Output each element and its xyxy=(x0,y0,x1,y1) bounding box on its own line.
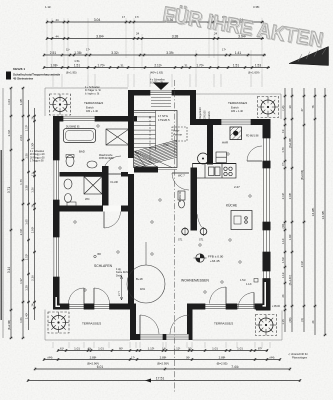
svg-text:2.62¹: 2.62¹ xyxy=(300,261,304,267)
svg-text:2.26: 2.26 xyxy=(30,275,34,281)
svg-text:2.63¹: 2.63¹ xyxy=(7,130,11,137)
svg-text:1.13¹: 1.13¹ xyxy=(148,346,155,350)
svg-text:30: 30 xyxy=(288,105,292,108)
svg-text:1.29: 1.29 xyxy=(24,285,28,291)
wall stair bottom stub xyxy=(134,167,158,173)
svg-text:KÜCHE: KÜCHE xyxy=(226,204,237,208)
wall bedroom top xyxy=(53,206,134,212)
wire dimension line x=28.5 xyxy=(28,100,30,330)
door arc entrance xyxy=(247,146,262,161)
svg-text:D30: D30 xyxy=(163,143,169,147)
door arc wc7 xyxy=(172,173,189,190)
svg-text:4 x Schwellen: 4 x Schwellen xyxy=(30,151,45,153)
svg-text:2.27: 2.27 xyxy=(234,185,240,189)
svg-text:40¹: 40¹ xyxy=(88,346,92,350)
svg-text:1.97: 1.97 xyxy=(19,278,23,284)
svg-text:B+18: B+18 xyxy=(136,277,143,281)
svg-text:(+4): (+4) xyxy=(281,105,285,110)
wall corridor-kitchen xyxy=(191,168,198,231)
svg-text:13.98¹: 13.98¹ xyxy=(311,208,315,217)
svg-text:3.71: 3.71 xyxy=(7,187,11,193)
wall left outer xyxy=(53,116,60,310)
svg-text:44: 44 xyxy=(55,34,59,38)
svg-text:60/126 1: 60/126 1 xyxy=(13,67,25,71)
svg-text:FD 86/1.98: FD 86/1.98 xyxy=(246,135,259,138)
wire dimension line y=67.5 xyxy=(44,67,270,69)
extension lines xyxy=(53,74,270,348)
svg-text:(B+1.88): (B+1.88) xyxy=(289,138,292,148)
svg-text:1.52¹: 1.52¹ xyxy=(24,254,28,260)
terrace top-left boundary xyxy=(45,88,128,116)
svg-text:ST1: ST1 xyxy=(199,239,204,242)
svg-text:28 Fliegg u 50: 28 Fliegg u 50 xyxy=(30,157,45,159)
wire dimension line y=369 xyxy=(35,368,290,370)
svg-text:SCHLAFEN: SCHLAFEN xyxy=(94,264,113,268)
svg-text:WOHNEN/ESSEN: WOHNEN/ESSEN xyxy=(181,279,209,283)
svg-text:(44): (44) xyxy=(288,318,292,323)
svg-text:1.38¹: 1.38¹ xyxy=(74,51,82,55)
svg-text:2.13¹: 2.13¹ xyxy=(154,63,161,67)
kitchen counter xyxy=(193,164,237,179)
svg-text:DN 100: DN 100 xyxy=(204,110,207,119)
svg-text:1.70¹: 1.70¹ xyxy=(97,63,104,67)
detail circle xyxy=(127,265,165,303)
window bath top xyxy=(63,116,95,122)
svg-text:1.04: 1.04 xyxy=(7,99,11,105)
svg-text:17¹: 17¹ xyxy=(131,355,135,359)
chimney xyxy=(230,127,242,140)
svg-text:24: 24 xyxy=(136,32,140,36)
svg-text:(8+1.60¹): (8+1.60¹) xyxy=(248,71,259,75)
svg-text:+33.45: +33.45 xyxy=(210,259,220,263)
svg-text:24: 24 xyxy=(30,116,34,119)
wc toilet2 xyxy=(65,194,72,203)
svg-text:1.38¹: 1.38¹ xyxy=(19,99,23,106)
svg-text:Regenrohr: Regenrohr xyxy=(199,107,202,119)
door arc middle 2 xyxy=(170,315,189,334)
svg-text:◁ Unterschrift für: ◁ Unterschrift für xyxy=(288,352,308,356)
window right living xyxy=(263,230,271,252)
svg-text:50¹: 50¹ xyxy=(188,346,192,350)
svg-text:17¹: 17¹ xyxy=(222,48,226,52)
svg-text:(B=2.95³): (B=2.95³) xyxy=(157,362,169,366)
wall stair-bedroom spine xyxy=(128,96,134,310)
svg-text:3.84¹: 3.84¹ xyxy=(96,34,105,38)
wc toilet xyxy=(66,156,74,167)
svg-text:2.13¹: 2.13¹ xyxy=(281,193,285,199)
door arc bedroom xyxy=(104,212,121,229)
rotated texts protrusion xyxy=(199,107,211,119)
svg-text:2.88¹: 2.88¹ xyxy=(160,355,167,359)
stairs xyxy=(134,111,178,169)
svg-text:11¹: 11¹ xyxy=(30,172,34,176)
svg-text:0V58 02.0E66: 0V58 02.0E66 xyxy=(99,158,114,160)
wire dimension line x=315 xyxy=(314,88,316,335)
svg-text:1PA: 1PA xyxy=(140,287,145,291)
svg-text:3.14: 3.14 xyxy=(7,267,11,273)
washbasin bath xyxy=(87,161,97,168)
wire top dimension row 2 xyxy=(46,34,264,40)
svg-text:1.01: 1.01 xyxy=(19,317,23,323)
svg-text:1.13¹: 1.13¹ xyxy=(281,272,285,278)
svg-text:7.44¹: 7.44¹ xyxy=(231,365,239,369)
svg-text:BAD: BAD xyxy=(79,150,85,154)
wall entrance left corner xyxy=(128,90,134,122)
svg-text:87¹: 87¹ xyxy=(258,346,262,350)
washbasin wc xyxy=(64,179,72,189)
door entrance opening xyxy=(150,90,172,96)
svg-text:1.41: 1.41 xyxy=(235,51,242,55)
svg-text:17.51: 17.51 xyxy=(156,376,165,380)
tree top-left xyxy=(50,94,71,115)
wall bedroom bottom xyxy=(60,304,134,310)
svg-text:(4): (4) xyxy=(300,318,304,321)
svg-text:1.01: 1.01 xyxy=(237,346,243,350)
svg-text:20 Fliegg u 20: 20 Fliegg u 20 xyxy=(30,154,45,156)
svg-text:1.01: 1.01 xyxy=(98,346,104,350)
wall left corner foot xyxy=(53,304,66,310)
svg-text:14.38¹: 14.38¹ xyxy=(321,211,325,220)
svg-text:1.51²: 1.51² xyxy=(240,279,246,282)
wall entrance top xyxy=(128,90,196,96)
door arc middle 1 xyxy=(140,315,159,334)
wall left corner vertical xyxy=(53,294,60,310)
door arc bedroom terrace 2 xyxy=(94,288,110,304)
node left legend block xyxy=(6,67,61,81)
svg-text:HAR: HAR xyxy=(222,141,228,145)
svg-text:31: 31 xyxy=(120,63,124,67)
svg-text:47: 47 xyxy=(300,108,304,111)
electric symbols xyxy=(74,125,251,293)
svg-text:(44): (44) xyxy=(48,355,53,359)
svg-text:24: 24 xyxy=(311,320,315,323)
wall right outer xyxy=(263,119,271,311)
svg-text:≤ 95.00: ≤ 95.00 xyxy=(272,305,281,308)
svg-text:1.51: 1.51 xyxy=(233,63,239,67)
wall bath top xyxy=(53,116,137,122)
svg-text:BR: BR xyxy=(98,253,102,256)
tree bottom-right xyxy=(256,315,277,336)
wc7 fixture xyxy=(178,191,185,200)
svg-text:1.38: 1.38 xyxy=(24,185,28,191)
svg-text:61¹: 61¹ xyxy=(60,346,64,350)
door arc living terrace 1 xyxy=(210,287,227,304)
svg-text:13¹: 13¹ xyxy=(281,129,285,133)
svg-text:3.04: 3.04 xyxy=(94,18,101,22)
svg-text:DUSWNE 95: DUSWNE 95 xyxy=(66,127,80,129)
svg-text:Planvorlagen: Planvorlagen xyxy=(292,356,308,360)
axis line xyxy=(174,80,176,392)
wall wc-flur xyxy=(102,166,109,206)
svg-text:1.51: 1.51 xyxy=(74,63,80,67)
wire top extension verticals xyxy=(47,18,262,74)
svg-text:(44): (44) xyxy=(270,355,275,359)
svg-text:Detail: Detail xyxy=(116,274,123,277)
door middle terrace 1 xyxy=(140,334,163,340)
svg-text:1.01: 1.01 xyxy=(212,346,218,350)
stamp FUER IHRE AKTEN xyxy=(161,3,326,53)
door bedroom terrace 1 xyxy=(69,304,84,310)
bathtub xyxy=(64,129,96,143)
terrace bottom-left boundary xyxy=(45,310,130,341)
wall kitchen top xyxy=(192,119,271,125)
door middle terrace 2 xyxy=(166,334,189,340)
svg-text:14¹: 14¹ xyxy=(162,346,166,350)
svg-text:3.39¹: 3.39¹ xyxy=(166,51,174,55)
svg-text:TERRASSE/2: TERRASSE/2 xyxy=(84,101,104,105)
door bedroom terrace 2 xyxy=(94,304,110,310)
svg-text:TERRASSE/2: TERRASSE/2 xyxy=(228,101,248,105)
svg-text:1.70: 1.70 xyxy=(281,147,285,153)
svg-text:1 Tragg m 90: 1 Tragg m 90 xyxy=(30,160,44,163)
svg-text:2.51: 2.51 xyxy=(50,51,57,55)
wire dimension line y=359.5 xyxy=(44,359,280,361)
svg-text:1.17¹: 1.17¹ xyxy=(24,125,28,131)
wall bath bottom stub xyxy=(121,172,128,177)
svg-text:60¹: 60¹ xyxy=(119,346,123,350)
door living terrace 1 xyxy=(205,304,226,310)
wall living bottom xyxy=(187,304,263,310)
svg-text:2.88¹: 2.88¹ xyxy=(219,355,226,359)
svg-text:1.01: 1.01 xyxy=(74,346,80,350)
wall har-kitchen xyxy=(207,121,213,165)
svg-text:1.08¹: 1.08¹ xyxy=(50,63,57,67)
terrace top-right boundary xyxy=(196,94,281,119)
svg-text:180 + 1.40: 180 + 1.40 xyxy=(86,110,98,113)
door arc bedroom terrace 1 xyxy=(69,288,85,304)
svg-text:44: 44 xyxy=(55,18,59,22)
shower wc room xyxy=(84,177,102,195)
wall mid-right vertical xyxy=(187,304,193,341)
svg-text:(B=2.95): (B=2.95) xyxy=(217,362,228,366)
columns xyxy=(182,227,207,236)
svg-text:24: 24 xyxy=(281,294,285,297)
svg-text:1.15: 1.15 xyxy=(281,319,285,325)
svg-text:FLUR: FLUR xyxy=(111,180,118,184)
svg-text:2.04: 2.04 xyxy=(19,135,23,141)
svg-text:(B+3.96): (B+3.96) xyxy=(300,170,304,180)
svg-text:06¹: 06¹ xyxy=(186,355,190,359)
wire left vertical dims xyxy=(7,87,13,339)
svg-text:6.01: 6.01 xyxy=(97,365,104,369)
svg-text:1.76: 1.76 xyxy=(19,179,23,185)
svg-text:1.93¹: 1.93¹ xyxy=(30,227,34,234)
wire dimension line y=55 xyxy=(44,54,266,56)
svg-text:45 Steinsteine: 45 Steinsteine xyxy=(13,77,34,81)
svg-text:2.63¹: 2.63¹ xyxy=(19,229,23,236)
svg-text:31: 31 xyxy=(184,63,188,67)
hall cabinet xyxy=(216,152,227,163)
svg-text:TERRASSE/2: TERRASSE/2 xyxy=(82,322,102,326)
svg-text:2.08\1.51¹: 2.08\1.51¹ xyxy=(179,191,182,202)
wire top dimension row 4 xyxy=(43,63,270,69)
wire dimension line x=304 xyxy=(303,88,305,332)
wire dimension line y=22 xyxy=(47,21,264,23)
svg-text:1.26: 1.26 xyxy=(30,187,34,193)
shower top xyxy=(106,129,129,145)
svg-text:1.70¹: 1.70¹ xyxy=(196,63,203,67)
svg-text:24: 24 xyxy=(30,204,34,207)
svg-text:1.53: 1.53 xyxy=(255,63,261,67)
svg-text:1.12¹: 1.12¹ xyxy=(281,238,285,244)
svg-text:WC 7: WC 7 xyxy=(178,174,185,178)
tree bottom-left xyxy=(48,312,69,333)
svg-text:1.13¹: 1.13¹ xyxy=(246,283,252,286)
svg-text:(B+1.40¹): (B+1.40¹) xyxy=(289,275,292,286)
svg-text:1.51: 1.51 xyxy=(74,59,80,63)
svg-text:17S/26.5: 17S/26.5 xyxy=(158,118,170,122)
wall bath bottom xyxy=(60,172,104,177)
svg-text:17¹: 17¹ xyxy=(135,15,139,19)
svg-text:07¹: 07¹ xyxy=(282,162,285,166)
svg-text:Waschnische: Waschnische xyxy=(99,155,113,157)
wire dimension line x=292 xyxy=(291,88,293,332)
svg-text:1.50: 1.50 xyxy=(24,153,28,159)
wire top dimension row 1 xyxy=(46,18,264,24)
entrance steps xyxy=(151,98,171,107)
heiz-therme xyxy=(172,127,187,141)
window kitchen top xyxy=(221,119,251,125)
svg-text:17: 17 xyxy=(122,15,126,19)
kitchen island xyxy=(231,211,252,230)
svg-text:3.32¹: 3.32¹ xyxy=(111,51,119,55)
window left bedroom xyxy=(53,237,60,277)
wire right vertical dims xyxy=(281,88,287,332)
wire dimension line x=23 xyxy=(22,88,24,338)
svg-text:1.40¹: 1.40¹ xyxy=(24,313,28,319)
wall middle bottom xyxy=(130,334,193,340)
triangle north wedge xyxy=(289,47,329,66)
svg-text:17¹: 17¹ xyxy=(86,48,90,52)
door right entrance FD xyxy=(263,138,271,161)
svg-text:(8+1.95): (8+1.95) xyxy=(66,71,77,75)
svg-text:2.30¹: 2.30¹ xyxy=(30,143,34,150)
svg-text:TERRASSE/2: TERRASSE/2 xyxy=(214,322,234,326)
window right kitchen xyxy=(263,168,271,222)
svg-text:2.77: 2.77 xyxy=(117,290,121,296)
boiler circle xyxy=(198,153,209,164)
svg-text:(40¹+1.63): (40¹+1.63) xyxy=(150,71,163,75)
wire dimension line x=285 xyxy=(284,88,286,332)
svg-text:3.38¹: 3.38¹ xyxy=(253,5,259,9)
wire bottom dimension rows xyxy=(57,346,268,352)
svg-text:Estrich: Estrich xyxy=(208,111,211,119)
svg-text:3.38: 3.38 xyxy=(172,34,179,38)
svg-text:1.65: 1.65 xyxy=(24,219,28,225)
door arc bath xyxy=(103,156,121,174)
svg-text:76: 76 xyxy=(311,105,315,108)
svg-text:(44): (44) xyxy=(281,224,285,229)
svg-text:24: 24 xyxy=(30,303,34,306)
wire top dimension row 3 xyxy=(43,51,266,57)
window left wc-bath xyxy=(53,160,60,200)
svg-text:FFB ± 0.00: FFB ± 0.00 xyxy=(208,255,224,259)
wall mid-left vertical xyxy=(130,304,136,341)
window right small xyxy=(263,271,271,279)
wall bottom-right foot xyxy=(256,305,271,311)
svg-text:b. Ingén u. St: b. Ingén u. St xyxy=(85,92,100,95)
door living terrace 2 xyxy=(237,304,255,310)
entrance marker triangle xyxy=(153,83,169,91)
svg-text:(8+2.96): (8+2.96) xyxy=(7,320,11,330)
svg-text:180 + 1.40: 180 + 1.40 xyxy=(231,110,243,113)
FFB level mark xyxy=(194,254,224,263)
svg-text:3.08¹: 3.08¹ xyxy=(288,193,292,199)
wire dimension line x=34.5 xyxy=(34,108,36,320)
svg-text:2.88¹: 2.88¹ xyxy=(90,355,97,359)
door arc living terrace 2 outside xyxy=(238,293,254,309)
wire dimension line y=380.5 xyxy=(28,380,300,382)
svg-text:B 1970 u 75: B 1970 u 75 xyxy=(150,82,164,85)
wire dimension line x=325 xyxy=(324,88,326,335)
svg-text:ST1: ST1 xyxy=(178,239,183,242)
svg-text:1.11¹: 1.11¹ xyxy=(45,5,51,9)
wire dimension line y=38.5 xyxy=(47,38,264,40)
svg-text:11¹: 11¹ xyxy=(66,48,70,52)
wire dimension line x=11 xyxy=(10,88,12,338)
svg-text:1.82¹: 1.82¹ xyxy=(288,234,292,240)
wall entrance right corner xyxy=(190,90,196,125)
svg-text:1.51²: 1.51² xyxy=(281,257,285,263)
svg-text:WC: WC xyxy=(85,197,90,201)
terrace bottom-right boundary xyxy=(193,311,283,341)
tree top-right xyxy=(258,97,279,118)
wire dimension line y=350.5 xyxy=(58,350,268,352)
